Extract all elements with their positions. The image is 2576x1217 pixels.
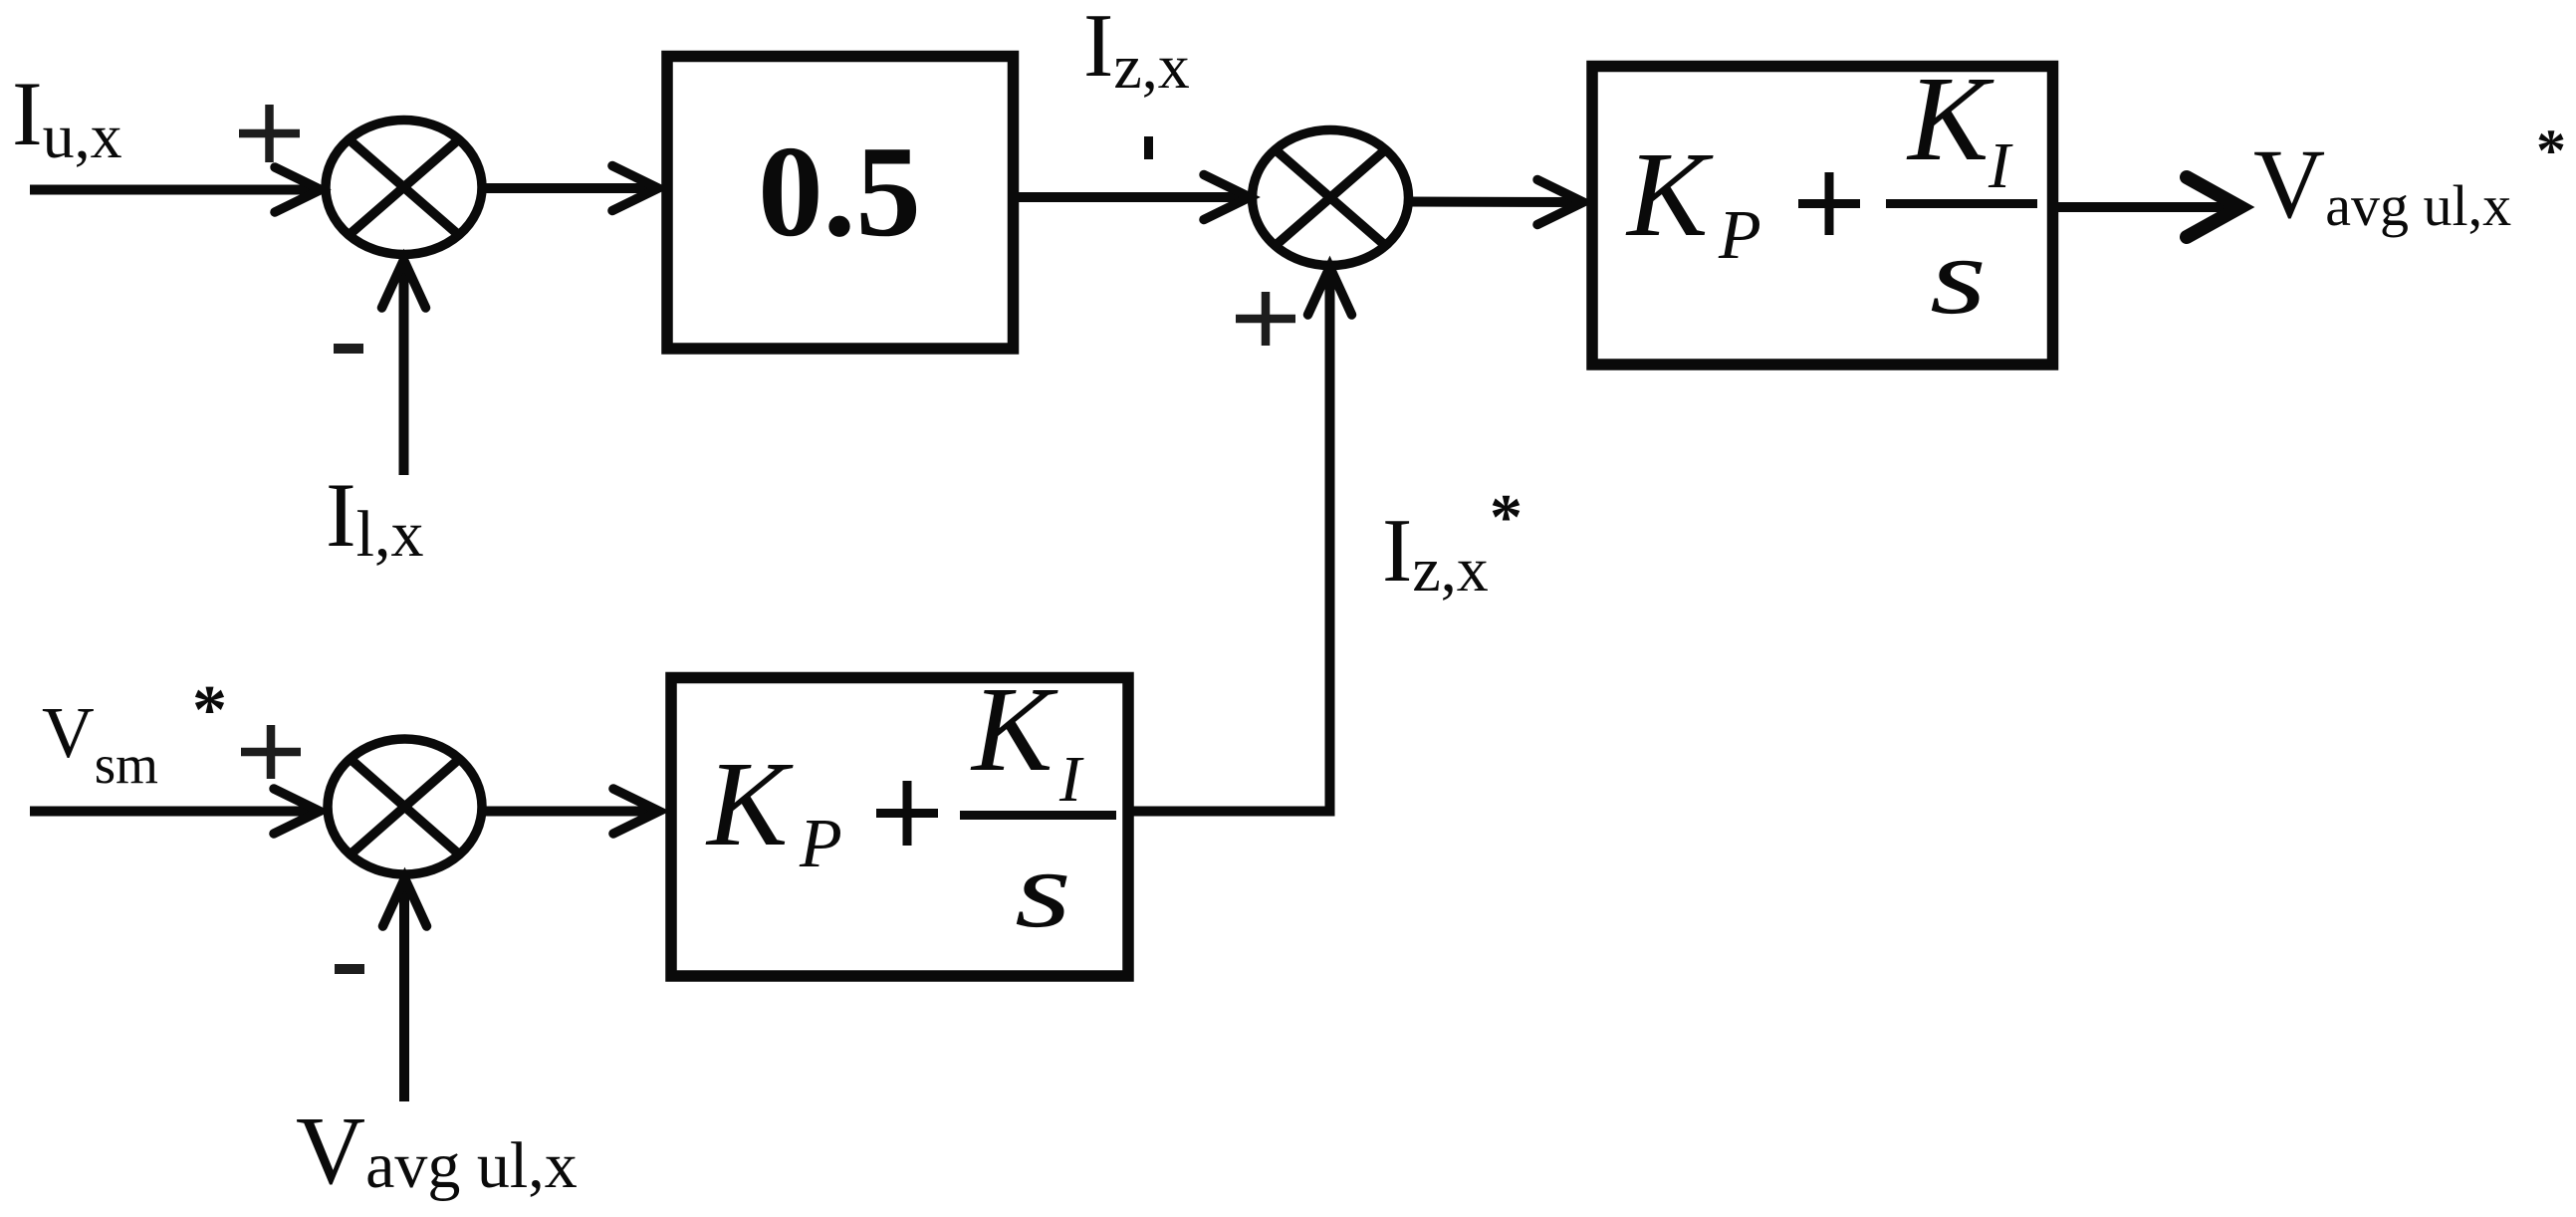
svg-text:K: K (705, 737, 794, 871)
svg-text:s: s (1015, 829, 1071, 951)
svg-text:0.5: 0.5 (758, 120, 921, 264)
svg-text:P: P (799, 806, 842, 882)
svg-text:P: P (1718, 197, 1761, 274)
svg-text:*: * (1490, 481, 1522, 554)
svg-text:K: K (1906, 52, 1994, 186)
svg-text:*: * (2536, 118, 2566, 183)
svg-text:K: K (970, 662, 1058, 797)
svg-text:K: K (1625, 127, 1714, 262)
svg-text:s: s (1930, 215, 1987, 338)
svg-text:*: * (192, 672, 227, 749)
svg-text:I: I (1988, 129, 2013, 202)
svg-text:I: I (1058, 743, 1084, 816)
